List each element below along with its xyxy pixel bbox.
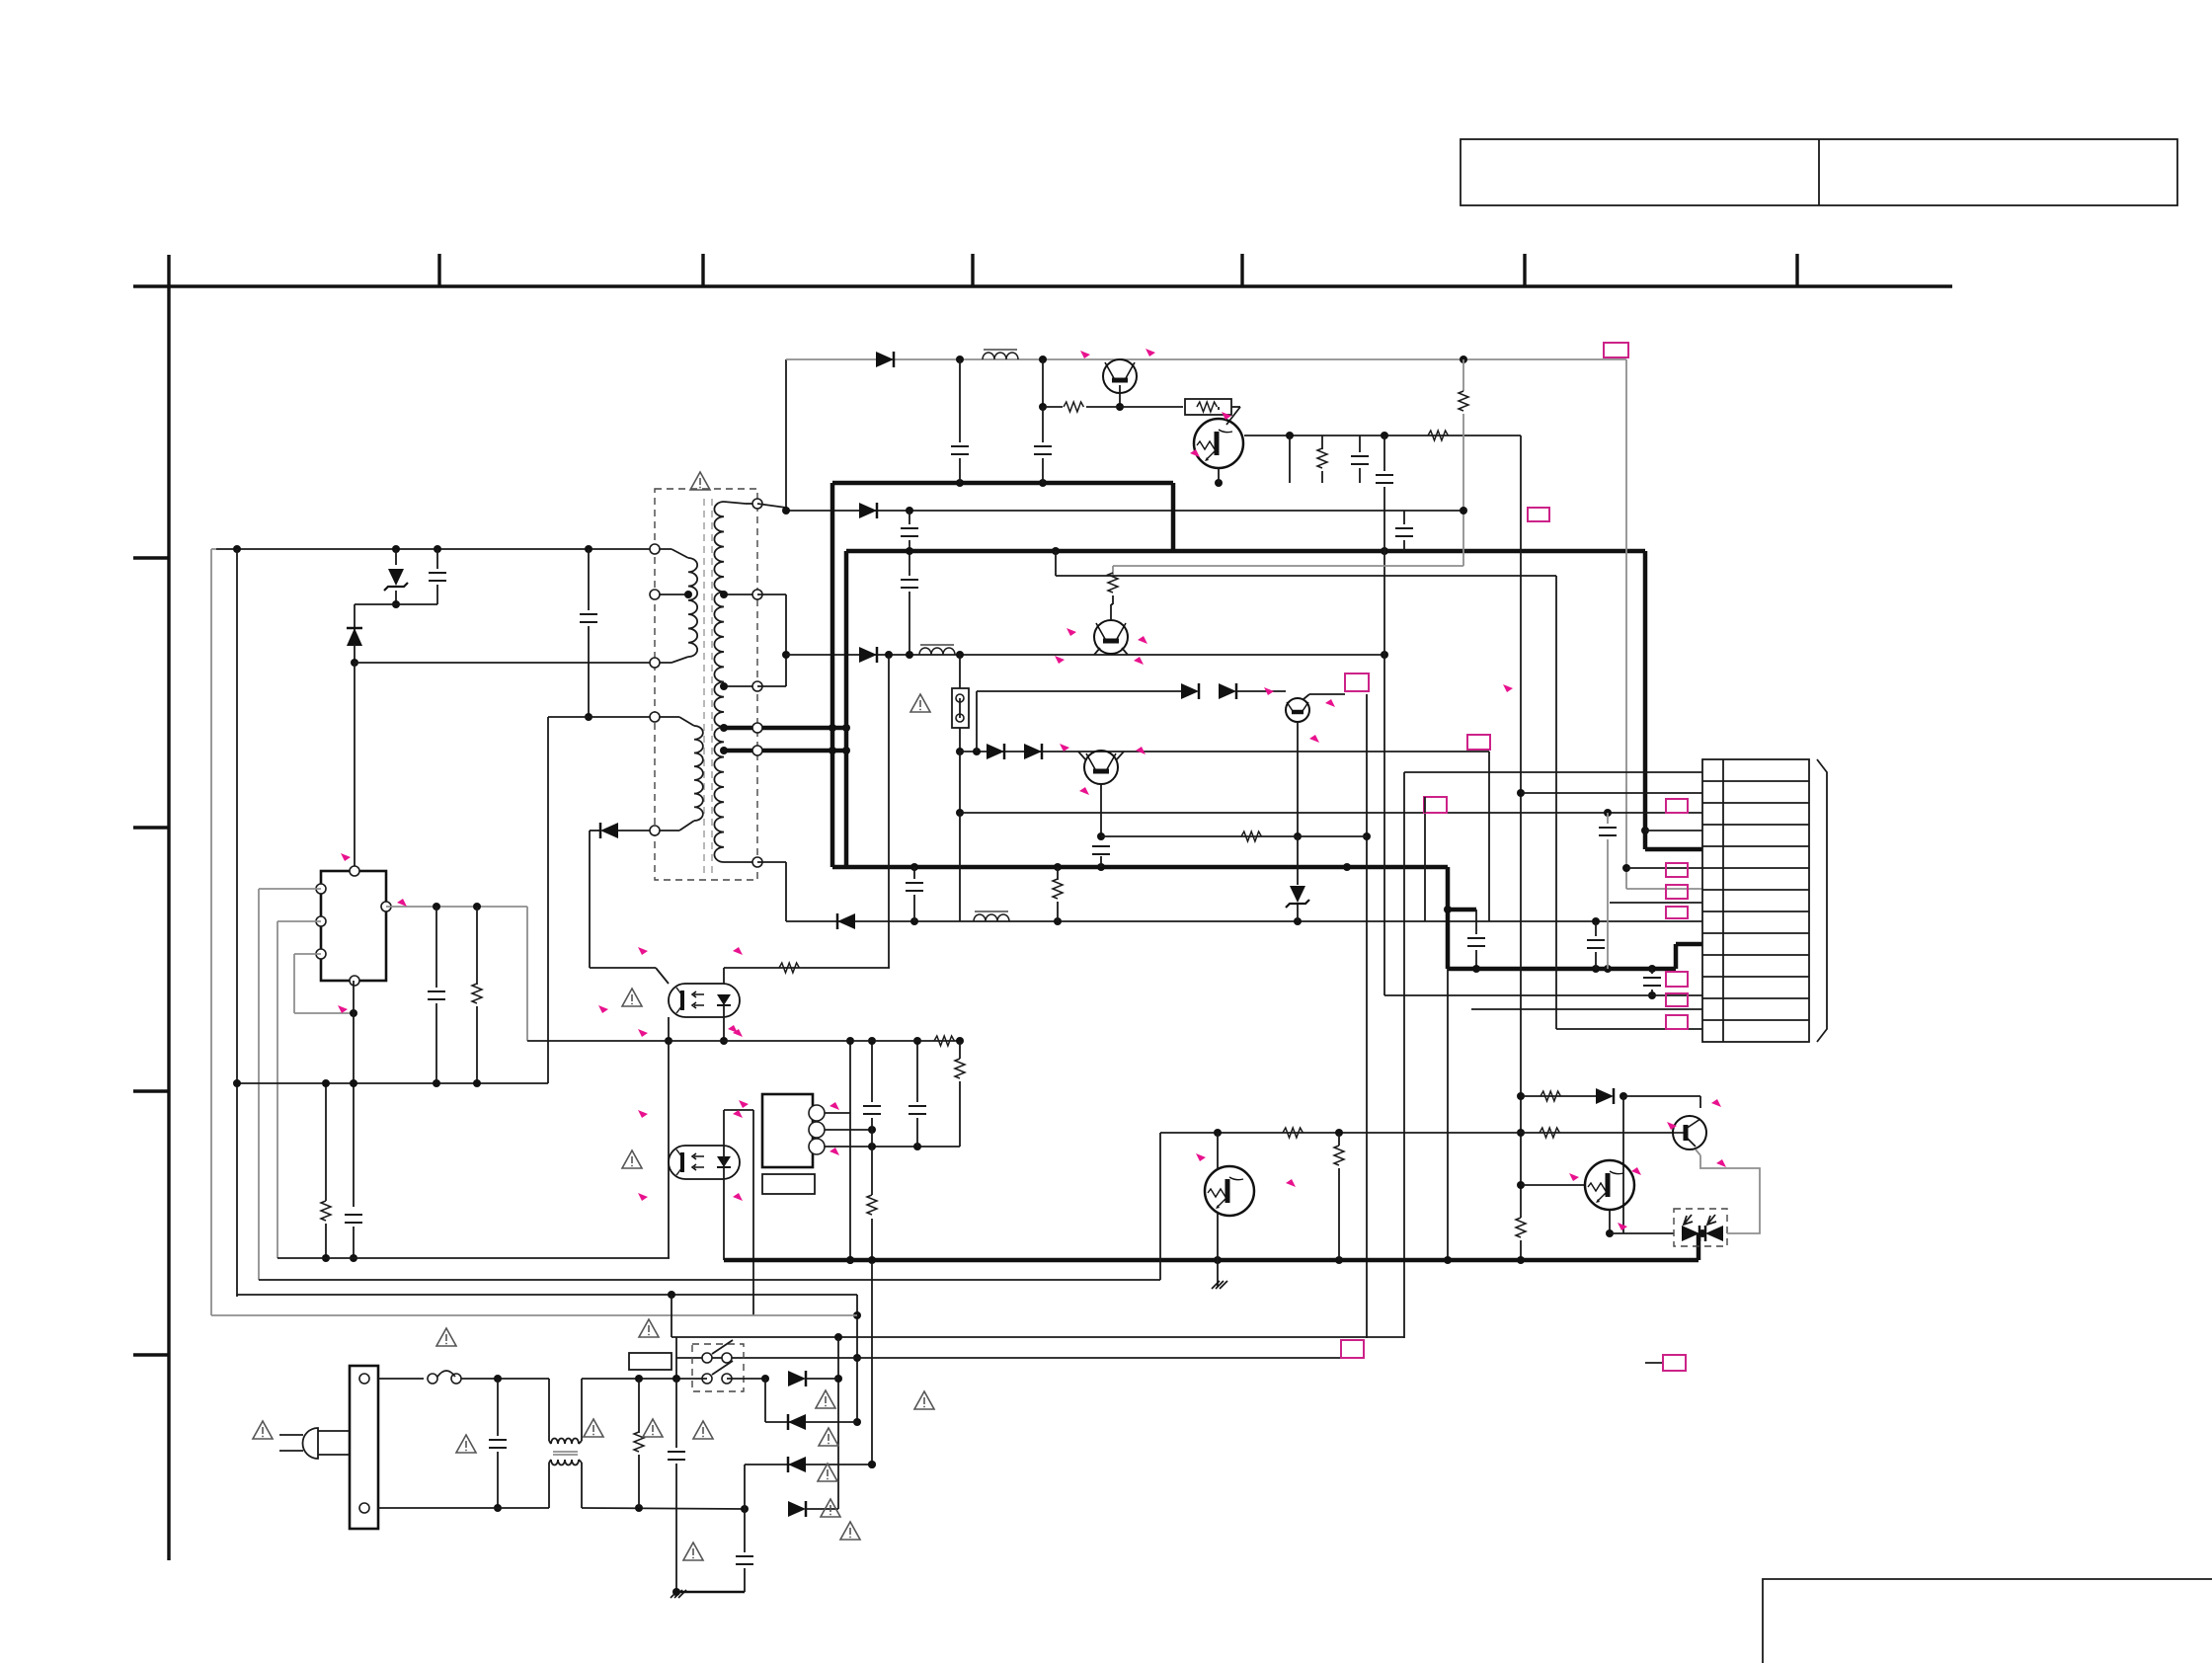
r605 bot lead [1520, 1240, 1522, 1260]
AC inlet box [350, 1366, 378, 1529]
capacitor C617 [668, 1452, 685, 1460]
choke core a [553, 1451, 578, 1453]
capacitor C621 [901, 528, 918, 536]
title block [1461, 139, 2177, 205]
warning triangle opto2 [622, 1150, 642, 1168]
pink arrow 7 [1055, 656, 1065, 664]
capacitor C601 [429, 573, 446, 581]
cx lead top [497, 1379, 499, 1436]
optocoupler PC602 [669, 1146, 740, 1179]
x1175 up [1159, 1133, 1161, 1280]
junction x921 y558 [906, 547, 913, 555]
junction x861 y1276 [846, 1256, 854, 1264]
wire y703 [1309, 693, 1345, 695]
c621 lead b [908, 540, 910, 551]
pink tag CN3 [1666, 885, 1688, 899]
warning triangle fuse [910, 694, 930, 712]
x534 down [526, 907, 528, 1041]
x883 vertical mid [871, 1118, 873, 1195]
IC601 pin bottom [350, 976, 359, 986]
row2 wire y803 [1521, 792, 1702, 794]
junction x733 y1054 [720, 1037, 728, 1045]
resistor R608 [1241, 831, 1261, 841]
junction x883 y1483 [868, 1461, 876, 1468]
wire x597 down [589, 831, 591, 968]
c622 lead b [908, 592, 910, 655]
gray x1127 down [1112, 566, 1114, 575]
junction x1630 y1249 [1606, 1229, 1614, 1237]
junction x1495 y981 [1472, 965, 1480, 973]
sec tap2 dot [720, 682, 728, 690]
junction x330 y1097 [322, 1079, 330, 1087]
wire pin510 to x796 [757, 504, 786, 508]
pink tag CN7 [1666, 1015, 1688, 1029]
transistor Q604 [1286, 698, 1309, 722]
diode D603 left [600, 823, 618, 838]
Q604 collector [1303, 694, 1309, 699]
wire y1161 [872, 1146, 960, 1148]
junction x1071 y933 [1054, 917, 1062, 925]
resistor R616 [1540, 1128, 1559, 1138]
junction x1724 y1249 [1698, 1229, 1706, 1237]
pink arrow 36 [1286, 1179, 1296, 1187]
resistor R609 [1053, 879, 1063, 899]
junction x1233 y1276 [1214, 1256, 1222, 1264]
junction x1314 y847 [1294, 832, 1302, 840]
pink tag W605 [1424, 797, 1447, 813]
diode D608 [1181, 683, 1199, 699]
c612 bot lead [1651, 990, 1653, 995]
zd lead top [1297, 836, 1299, 885]
wire y823 long [960, 812, 1702, 814]
QA emitter route [1700, 1155, 1760, 1233]
QA collector bend [1699, 1096, 1701, 1108]
bracket pin695 [757, 685, 786, 687]
sec tap4 [724, 749, 757, 753]
r619 bot lead [638, 1455, 640, 1508]
r610 bot lead [325, 1224, 327, 1258]
transformer pin circle right y695 [752, 681, 762, 691]
capacitor C602 [580, 614, 597, 622]
capacitor C605 [1351, 456, 1369, 464]
connector divider [1722, 759, 1724, 1042]
connector pin divider 7 [1702, 911, 1809, 912]
x1422 vertical [1403, 772, 1405, 1338]
c610 top lead [1607, 813, 1609, 824]
Q603 base slant [1094, 648, 1100, 655]
primary winding lower [694, 726, 703, 821]
transformer pin circle right y873 [752, 857, 762, 867]
pin1 wire [825, 1112, 850, 1114]
capacitor C603 [951, 446, 969, 454]
wire rail y556 [216, 548, 655, 550]
transformer pin circle right y760 [752, 746, 762, 755]
wire y700 [977, 690, 1181, 692]
row7 wire y914 [1610, 902, 1702, 904]
pink arrow 14 [1079, 787, 1089, 795]
junction x401 y556 [392, 545, 400, 553]
warning triangle at 712,1450 [693, 1421, 713, 1439]
thin gnd return y1274 [277, 1257, 670, 1259]
transformer pin circle right y602 [752, 590, 762, 599]
transformer pin circle right y737 [752, 723, 762, 733]
c604 top lead [1042, 359, 1044, 407]
diode D620 [876, 352, 894, 367]
c618 bot lead [744, 1568, 746, 1592]
pink tag W603 [1345, 673, 1369, 691]
junction x685 y1612 [672, 1588, 680, 1596]
lead pin5 [655, 830, 679, 831]
diode D602 up [347, 628, 362, 646]
pink arrow 39 [739, 1100, 749, 1108]
junction x1402 y558 [1381, 547, 1388, 555]
y1147 wire [1160, 1132, 1673, 1134]
wire y412 [1043, 406, 1063, 408]
stub dot x857 y760 [842, 747, 850, 754]
zd lead bot [1297, 905, 1299, 921]
wire y671 to transformer [355, 662, 655, 664]
ac top rail c [582, 1378, 707, 1380]
opto1 cathode lead x733 [723, 1001, 725, 1041]
x733 through opto2 [723, 1110, 725, 1260]
diode D604 [859, 647, 877, 663]
x972 down3 [959, 813, 961, 921]
cap lead bottom [436, 585, 438, 604]
wire x240 down [236, 549, 238, 1297]
relay RY601 dashed box [692, 1344, 744, 1391]
junction x1069 y558 [1052, 547, 1060, 555]
junction x868 y1375 [853, 1354, 861, 1362]
junction x1616 y981 [1592, 965, 1600, 973]
gray wire x214 down [210, 549, 212, 1315]
junction x677 y1054 [665, 1037, 672, 1045]
junction x1233 y1147 [1214, 1129, 1222, 1137]
x1508 down [1488, 752, 1490, 921]
junction x401 y612 [392, 600, 400, 608]
pink arrow 2 [1145, 349, 1155, 356]
transformer T601 dashed box [655, 489, 757, 880]
c607 top lead [1403, 511, 1405, 524]
sec lead top [724, 502, 746, 504]
choke top winding [551, 1439, 579, 1445]
gray top rail y364 [786, 358, 1626, 360]
thick bus vertical x857 [844, 551, 849, 867]
ground symbol GND1 [1212, 1281, 1227, 1289]
pink arrow 11 [1309, 735, 1319, 743]
gnd wire y1612 [676, 1591, 745, 1594]
junction x1234 y489 [1215, 479, 1223, 487]
y1200 wire QB base [1521, 1184, 1586, 1186]
junction x330 y1274 [322, 1254, 330, 1262]
x972 down2 [959, 752, 961, 813]
Q602 collector lead [1218, 407, 1220, 410]
junction x1644 y1110 [1619, 1092, 1627, 1100]
junction x861 y1276b [846, 1256, 854, 1264]
junction x929 y1161 [913, 1143, 921, 1150]
x849 down [837, 1337, 839, 1509]
r611 bot lead [476, 1006, 478, 1083]
capacitor C604 [1034, 446, 1052, 454]
connector pin divider 11 [1702, 997, 1809, 999]
junction x685 y1396 [672, 1375, 680, 1383]
pink arrow 35 [1196, 1153, 1206, 1161]
choke core b [553, 1454, 578, 1456]
fusible resistor R602 [1185, 399, 1231, 415]
diode D606 [987, 744, 1004, 759]
transistor QB Q608 [1585, 1160, 1634, 1210]
junction x921 y517 [906, 507, 913, 515]
thick bus y981 [1448, 967, 1676, 972]
y1440 wire [765, 1421, 858, 1423]
junction x1673 y981 [1648, 965, 1656, 973]
lead pin1 [655, 548, 671, 550]
bridge wire y1124 [724, 1109, 753, 1111]
sec tap1 [724, 594, 757, 595]
thick bus x1697 up [1674, 944, 1679, 969]
connector pin divider 8 [1702, 932, 1809, 934]
pink arrow 30 [1667, 1122, 1677, 1130]
photodiode PD1 [1682, 1226, 1699, 1241]
junction x1314 y933 [1294, 917, 1302, 925]
connector CN601 body [1702, 759, 1809, 1042]
y1332 wire [211, 1314, 857, 1316]
capacitor C611 [1587, 940, 1605, 948]
x972 resistor chain [959, 1041, 961, 1059]
junction x972 y489 [956, 479, 964, 487]
ruler tick x=712 [701, 254, 704, 286]
relay sw1 a [702, 1353, 712, 1363]
sec lead top2 [746, 503, 757, 505]
thick bus y558 [846, 549, 1645, 554]
sec lead bottom [724, 861, 757, 863]
pink arrow 22 [733, 1193, 743, 1201]
junction x754 y1528 [741, 1505, 749, 1513]
cap lead top [436, 549, 438, 569]
c617 top lead [675, 1379, 677, 1448]
junction x880 y1483 [868, 1461, 876, 1468]
connector pin divider 6 [1702, 889, 1809, 891]
photodiode wire y1249 [1610, 1232, 1674, 1234]
echo rail y933 [786, 920, 1702, 922]
wire y966 [294, 953, 321, 955]
relay sw1 b [722, 1353, 732, 1363]
row5 wire y879 [1626, 867, 1702, 869]
wire y980 to opto1 [590, 967, 656, 969]
wire y663 [786, 654, 1384, 656]
opto1 top wire y980 [724, 967, 890, 969]
sec tap3 dot [720, 724, 728, 732]
tap dot upper primary [684, 591, 692, 598]
x1576 vertical [1555, 576, 1557, 1029]
choke bottom winding [551, 1460, 579, 1465]
junction x442 y1097 [433, 1079, 440, 1087]
wire y900 [259, 888, 321, 890]
thin x1466 to gnd bus [1447, 969, 1449, 1260]
thick bus jog x1188 [1171, 483, 1176, 551]
pink arrow 34 [1618, 1223, 1627, 1230]
capacitor C606 [1376, 475, 1393, 483]
c611 top lead [1595, 921, 1597, 936]
ac bottom to x849 [806, 1508, 838, 1510]
optocoupler PC601 [669, 984, 740, 1017]
wire y583 [1056, 575, 1556, 577]
lead pin5b [679, 821, 694, 831]
c604 bottom lead [1042, 458, 1044, 483]
junction x900 y663 [885, 651, 893, 659]
inlet pin top [359, 1374, 369, 1384]
zener diode D601 [384, 569, 408, 591]
junction x796 y517 [782, 507, 790, 515]
gray x262 down [258, 889, 260, 1280]
c622 lead a [908, 551, 910, 576]
y1354 wire [671, 1336, 1404, 1338]
wire y700b [1236, 690, 1286, 692]
lead pin3 [655, 662, 671, 664]
c606 top lead [1383, 436, 1385, 471]
pink tag W604 [1467, 735, 1490, 750]
junction x972 y663 [956, 651, 964, 659]
capacitor C607 [1395, 528, 1413, 536]
wire y1097 [237, 1082, 548, 1084]
capacitor C615 [863, 1106, 881, 1114]
IC602 pin2 [809, 1122, 825, 1138]
thick bus x1666 down [1643, 551, 1648, 849]
junction x861 y1054 [846, 1037, 854, 1045]
gray x1647 down [1625, 359, 1627, 889]
thick row y956 [1676, 942, 1702, 947]
photo sensor dashed box [1674, 1209, 1727, 1246]
c608 lead [1100, 856, 1102, 867]
main gnd bus y1276 [724, 1258, 1698, 1263]
ac top rail d [727, 1378, 765, 1380]
y1375 relay wire [676, 1357, 1364, 1359]
x358 from IC bottom [353, 981, 355, 1013]
pink arrow 25 [338, 1005, 348, 1013]
junction x883 y1054 [868, 1037, 876, 1045]
relay sw1 blade [712, 1340, 733, 1354]
x1356 down2 [1338, 1168, 1340, 1260]
junction x972 y823 [956, 809, 964, 817]
junction x1482 y517 [1460, 507, 1467, 515]
x330 down [325, 1083, 327, 1201]
r603 bot lead [1321, 471, 1323, 483]
echo wire from pin873 [757, 861, 786, 863]
resistor R612 [779, 963, 799, 973]
junction x989 y761 [973, 748, 981, 755]
c613 bot lead [353, 1227, 355, 1258]
x883 below bus [871, 1260, 873, 1465]
resistor R614 [955, 1059, 965, 1078]
wire x1306 [1289, 436, 1291, 483]
wire y847 [1101, 835, 1367, 837]
pink arrow 32 [1569, 1173, 1579, 1181]
warning triangle at 936,1420 [914, 1391, 934, 1409]
IC601 pin top [350, 866, 359, 876]
sec tap4 dot [720, 747, 728, 754]
fuse pin a [428, 1374, 437, 1384]
connector pin divider 12 [1702, 1019, 1809, 1021]
pink arrow 38 [728, 1025, 738, 1033]
capacitor CX601 [489, 1440, 507, 1448]
junction x1115 y847 [1097, 832, 1105, 840]
junction x443 y556 [434, 545, 441, 553]
ac top rail a [378, 1378, 424, 1380]
sec tap3 [724, 726, 757, 731]
bracket tap dot [782, 651, 790, 659]
wire x359 down [354, 604, 355, 630]
Q605 collector slant [1116, 752, 1124, 760]
x972 link down [959, 728, 961, 752]
ruler tick x=1820 [1795, 254, 1798, 286]
diode D615 left [788, 1457, 806, 1472]
junction x926 y878 [910, 863, 918, 871]
x883 vertical top [871, 1041, 873, 1102]
connector pin divider 3 [1702, 824, 1809, 826]
Q605 base slant [1078, 752, 1086, 760]
r609 bot lead [1057, 902, 1059, 921]
QB emitter [1609, 1211, 1611, 1233]
pink arrow 33 [1631, 1167, 1641, 1175]
junction x1466 y921 [1444, 906, 1452, 913]
connector bracket [1817, 759, 1827, 1042]
Q602 collector slant [1226, 407, 1240, 425]
junction x1056 y364 [1039, 356, 1047, 363]
inductor L602 [974, 911, 1009, 921]
x1644 down [1622, 1096, 1624, 1233]
junction x483 y1097 [473, 1079, 481, 1087]
diode D612 [788, 1371, 806, 1386]
junction x1673 y1008 [1648, 991, 1656, 999]
capacitor C612 [1643, 978, 1661, 986]
resistor R607 [1108, 573, 1118, 593]
capacitor C616 [908, 1106, 926, 1114]
transformer core line 2 [711, 499, 713, 874]
junction x1356 y1147 [1335, 1129, 1343, 1137]
row10 wire y1008 [1384, 994, 1702, 996]
c612 top lead [1651, 969, 1653, 974]
warning triangle at 836,1419 [816, 1390, 835, 1408]
ac bottom rail b [582, 1508, 745, 1509]
junction x1071 y878 [1054, 863, 1062, 871]
c618 top lead [744, 1509, 746, 1552]
thick bus y878 [832, 865, 1448, 870]
junction x1384 y847 [1363, 832, 1371, 840]
cap lead a [1475, 910, 1477, 934]
opto1 emitter lead [668, 1017, 670, 1041]
x861 vertical [849, 1041, 851, 1260]
diode D621 [859, 503, 877, 518]
pink arrow 17 [638, 1029, 648, 1037]
wire y726 to transformer pin4 [548, 716, 655, 718]
pink arrow 29 [1711, 1099, 1721, 1107]
junction x358 y1274 [350, 1254, 357, 1262]
choke drop L2 [548, 1463, 550, 1508]
transformer pin circle left y841 [650, 826, 660, 835]
x972 link to y663 [959, 655, 961, 688]
pin2 wire [825, 1129, 872, 1131]
thick bus top y489 [832, 481, 1173, 486]
relay sw2 b [722, 1374, 732, 1384]
Q601 emitter lead [1119, 385, 1121, 407]
x1069 stub [1055, 551, 1057, 576]
lead bend pin1a [671, 549, 688, 558]
diode D611 [1596, 1088, 1614, 1104]
junction x1540 y803 [1517, 789, 1525, 797]
wire y1026 [294, 1012, 354, 1014]
r603 top lead [1321, 436, 1323, 449]
diode D605 left [837, 913, 855, 929]
x868 down [856, 1295, 858, 1422]
